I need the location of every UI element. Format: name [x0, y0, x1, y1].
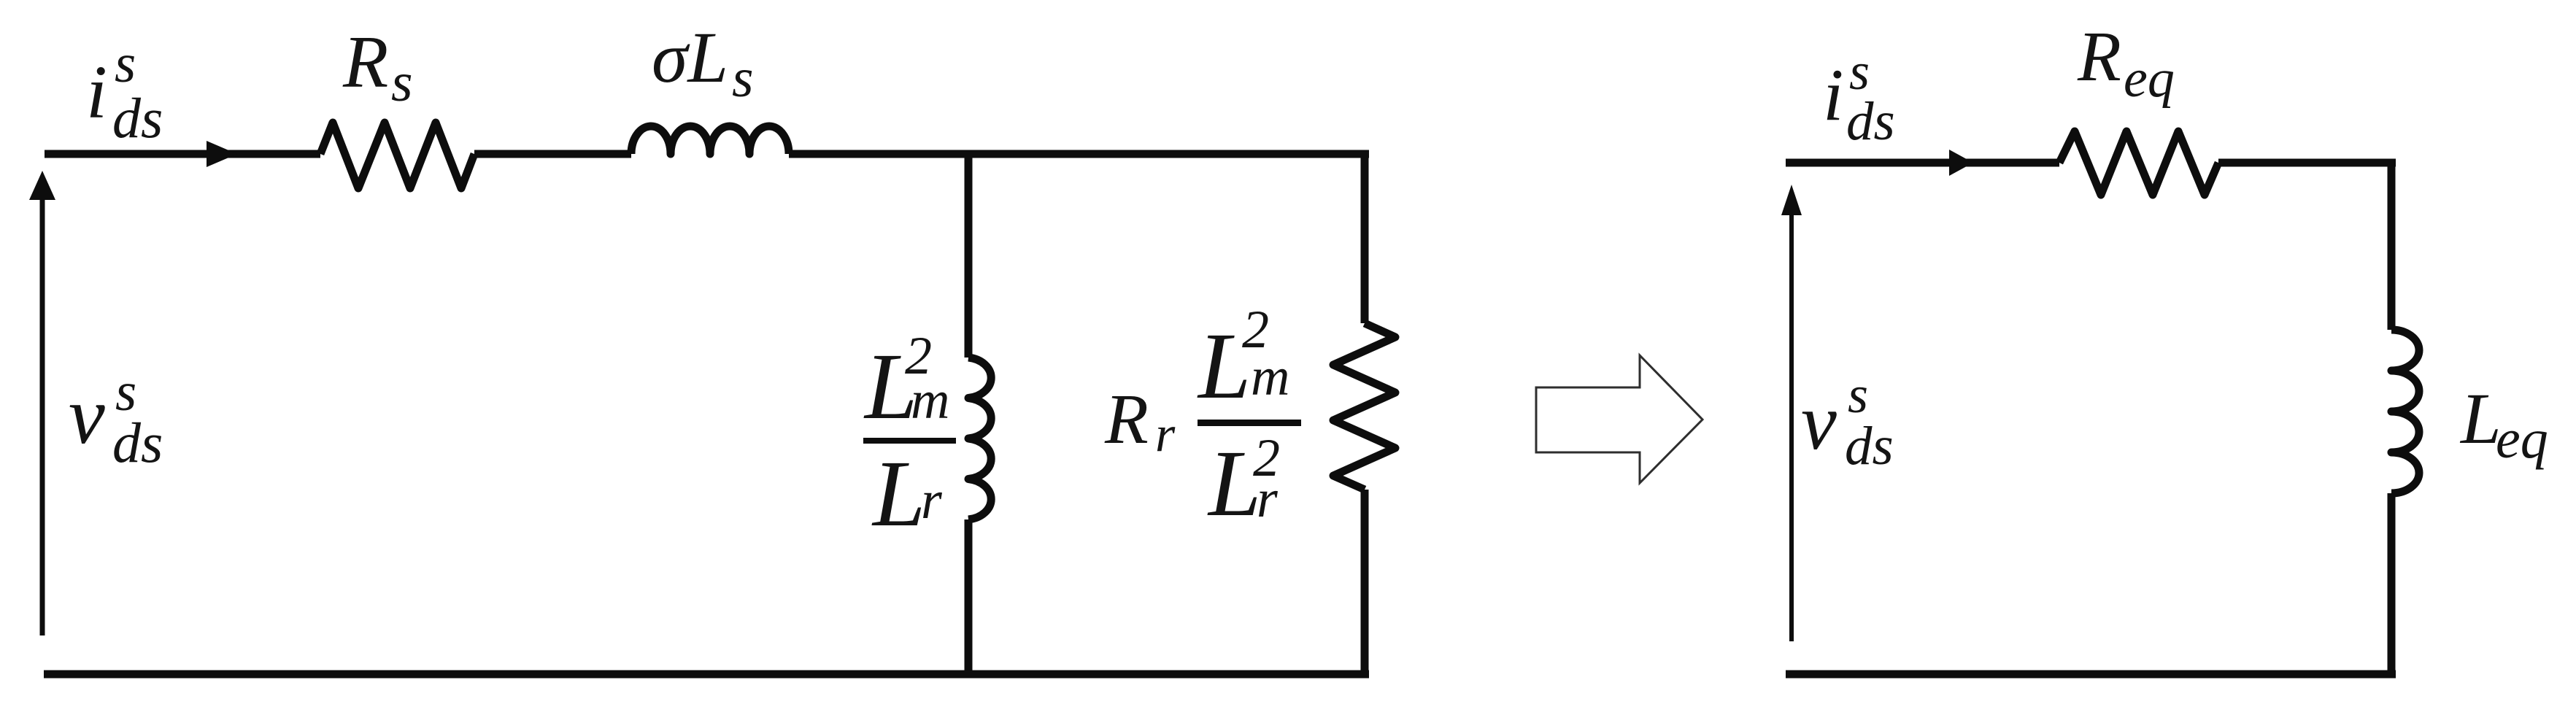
- voltage arrow v_ds (left): head: [29, 171, 55, 200]
- label Req: [2077, 18, 2175, 109]
- wire: left circuit top wire from source to Rs: [45, 150, 320, 158]
- label Rs: [342, 21, 413, 113]
- wire: left circuit bottom wire: [44, 671, 1369, 679]
- wire: right circuit right branch upper segment: [2388, 159, 2396, 330]
- wire: between Rs and sigma-Ls: [474, 150, 631, 158]
- fraction bar: [1198, 420, 1301, 426]
- label v_ds^s (left): [69, 362, 163, 474]
- svg-text:R: R: [342, 21, 388, 104]
- svg-text:i: i: [1823, 54, 1843, 136]
- resistor R3 (Req) zigzag: [2059, 131, 2218, 195]
- svg-text:s: s: [391, 52, 413, 113]
- svg-text:s: s: [115, 34, 136, 94]
- resistor R2 (Rr Lm^2/Lr^2) vertical zigzag: [1333, 323, 1395, 490]
- label i_ds^s (left): [86, 34, 163, 150]
- wire: right branch lower segment: [1361, 490, 1369, 674]
- fraction bar: [863, 438, 956, 444]
- voltage arrow v_ds (right): head: [1781, 185, 1802, 215]
- label Leq: [2459, 378, 2548, 470]
- label v_ds^s (right): [1801, 366, 1894, 476]
- wire: right circuit top wire from Req to corner: [2218, 159, 2396, 167]
- resistor R1 (Rs) zigzag: [320, 123, 474, 188]
- svg-text:r: r: [1155, 406, 1176, 463]
- svg-text:eq: eq: [2124, 49, 2175, 109]
- big transform arrow between circuits: [1536, 355, 1702, 483]
- svg-text:i: i: [86, 50, 107, 134]
- label Lm^2/Lr fraction (middle branch): [863, 326, 956, 546]
- svg-text:R: R: [2077, 18, 2121, 96]
- wire: right circuit top wire from source to Req: [1786, 159, 2059, 167]
- inductor L2 (Lm^2/Lr) vertical coil 4 humps bulging right: [968, 358, 991, 519]
- svg-text:s: s: [1848, 366, 1868, 424]
- svg-text:s: s: [732, 47, 754, 109]
- svg-text:σL: σL: [652, 17, 728, 98]
- wire: middle branch upper segment: [965, 150, 973, 358]
- svg-text:v: v: [69, 371, 105, 461]
- label i_ds^s (right): [1823, 42, 1895, 152]
- current arrow head i_ds (left): [207, 141, 237, 167]
- svg-text:ds: ds: [112, 411, 163, 474]
- inductor L1 (sigma Ls) 4 humps: [631, 126, 789, 154]
- inductor L3 (Leq) vertical coil 4 humps bulging right: [2391, 330, 2419, 493]
- wire: top wire from sigma-Ls to right branch: [789, 150, 1369, 158]
- wire: right branch upper segment: [1361, 150, 1369, 323]
- wire: right circuit bottom wire: [1786, 671, 2396, 679]
- current arrow head i_ds (right): [1949, 150, 1973, 176]
- svg-text:L: L: [871, 441, 925, 546]
- voltage arrow v_ds (left): shaft: [40, 197, 45, 635]
- label Rr Lm^2/Lr^2 (right branch resistor): [1104, 300, 1301, 536]
- svg-text:r: r: [921, 471, 943, 530]
- svg-text:R: R: [1104, 380, 1149, 459]
- svg-text:ds: ds: [1845, 416, 1894, 476]
- wire: middle branch lower segment: [965, 519, 973, 674]
- svg-text:L: L: [2459, 378, 2502, 459]
- svg-text:eq: eq: [2496, 409, 2548, 470]
- svg-text:m: m: [1251, 347, 1289, 407]
- svg-text:v: v: [1801, 377, 1837, 466]
- svg-text:m: m: [911, 371, 949, 430]
- svg-text:r: r: [1257, 469, 1279, 529]
- wire: right circuit right branch lower segment: [2388, 493, 2396, 674]
- svg-text:ds: ds: [112, 86, 163, 150]
- voltage arrow v_ds (right): shaft: [1789, 212, 1794, 641]
- label sigma-Ls: [652, 17, 754, 109]
- svg-text:ds: ds: [1846, 91, 1895, 152]
